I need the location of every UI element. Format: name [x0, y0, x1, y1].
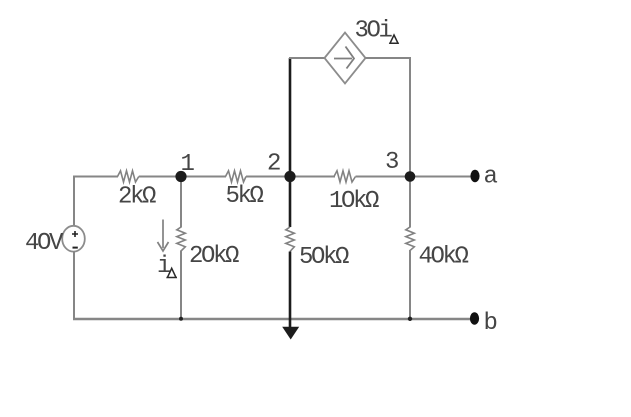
- wire left vertical lower: [73, 251, 75, 320]
- svg-text:2OkΩ: 2OkΩ: [189, 243, 239, 270]
- node 3 junction dot: [405, 171, 416, 182]
- wire 5k to node 2: [246, 176, 290, 178]
- svg-text:1: 1: [181, 151, 195, 178]
- svg-text:a: a: [484, 164, 498, 191]
- wire left vertical upper: [73, 176, 75, 227]
- wire dep-source loop right vertical: [409, 57, 411, 177]
- junction dot node3 bottom: [408, 317, 412, 321]
- wire node2 vertical black lower (50k to ground): [289, 252, 292, 328]
- junction dot node1 bottom: [179, 317, 183, 321]
- node 1 junction dot: [175, 171, 186, 182]
- dependent source arrow shaft: [334, 58, 352, 60]
- svg-text:b: b: [484, 310, 497, 337]
- resistor R 50k zigzag: [286, 227, 295, 252]
- wire node3 vertical lower: [409, 250, 411, 319]
- current arrow i-delta shaft: [162, 220, 164, 249]
- wire node1 to 5k: [181, 176, 226, 178]
- wire node2 to 10k: [290, 176, 335, 178]
- node 2 junction dot: [284, 171, 295, 182]
- svg-text:2: 2: [267, 150, 280, 177]
- wire top-left rail from source to 2k: [74, 176, 118, 178]
- wire node3 vertical upper: [409, 177, 411, 228]
- svg-text:3Oi: 3Oi: [355, 18, 393, 45]
- wire 2k to node 1: [139, 176, 181, 178]
- terminal b dot: [470, 312, 479, 324]
- svg-text:4OkΩ: 4OkΩ: [419, 243, 469, 270]
- svg-text:3: 3: [385, 149, 398, 176]
- terminal a dot: [470, 170, 479, 182]
- ground symbol: [282, 327, 299, 340]
- wire node1 vertical lower: [180, 251, 182, 320]
- svg-text:2kΩ: 2kΩ: [118, 184, 156, 211]
- source plus sign: [72, 231, 78, 237]
- resistor R 10k zigzag: [334, 171, 356, 182]
- svg-text:1OkΩ: 1OkΩ: [329, 188, 379, 215]
- wire node3 to terminal a: [410, 176, 471, 178]
- resistor R 2k zigzag: [118, 171, 139, 182]
- resistor R 40k zigzag: [406, 227, 415, 251]
- wire node1 vertical upper: [180, 177, 182, 228]
- svg-text:5kΩ: 5kΩ: [226, 183, 264, 210]
- wire 10k to node 3: [356, 176, 411, 178]
- dependent source arrow head: [346, 47, 355, 69]
- wire dep-source loop right horizontal: [366, 57, 412, 59]
- svg-text:5OkΩ: 5OkΩ: [299, 244, 349, 271]
- source minus sign: [73, 247, 78, 249]
- label delta subscript of i: [166, 268, 177, 277]
- wire bottom rail: [73, 318, 475, 320]
- label delta subscript of 30i: [389, 35, 399, 43]
- voltage source V1 40V circle: [62, 226, 85, 252]
- wire node2 vertical black upper (node2 to 50k): [289, 58, 292, 227]
- resistor R 5k zigzag: [226, 171, 247, 182]
- current arrow i-delta head: [158, 242, 169, 251]
- resistor R 20k zigzag: [177, 227, 186, 251]
- dependent source U1 diamond: [325, 33, 366, 84]
- wire dep-source loop left horizontal: [289, 57, 325, 59]
- svg-text:4OV: 4OV: [25, 230, 64, 257]
